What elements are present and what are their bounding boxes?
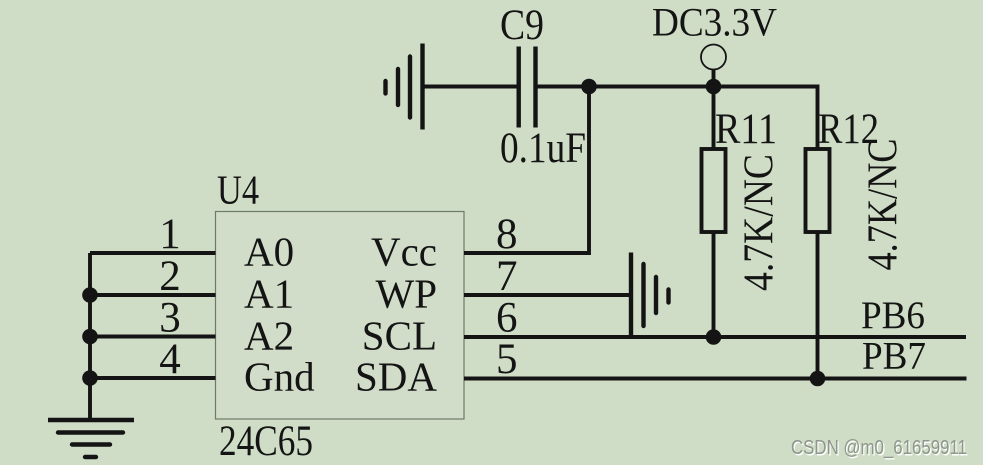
svg-text:4.7K/NC: 4.7K/NC (861, 139, 907, 271)
svg-text:6: 6 (496, 295, 518, 342)
svg-text:SCL: SCL (362, 313, 437, 359)
svg-text:1: 1 (159, 211, 181, 258)
svg-text:24C65: 24C65 (219, 418, 313, 465)
svg-text:4: 4 (159, 336, 181, 383)
svg-text:PB6: PB6 (861, 294, 925, 337)
svg-text:CSDN @m0_61659911: CSDN @m0_61659911 (791, 437, 967, 459)
svg-text:A0: A0 (244, 229, 294, 275)
svg-text:2: 2 (159, 253, 181, 300)
svg-text:4.7K/NC: 4.7K/NC (737, 154, 783, 291)
svg-text:A1: A1 (244, 271, 294, 317)
svg-text:A2: A2 (244, 313, 294, 359)
svg-text:0.1uF: 0.1uF (500, 125, 586, 172)
svg-text:Vcc: Vcc (371, 229, 437, 275)
svg-text:Gnd: Gnd (244, 354, 315, 400)
svg-text:WP: WP (376, 271, 438, 317)
svg-text:3: 3 (159, 295, 181, 342)
svg-text:PB7: PB7 (862, 335, 926, 378)
svg-text:SDA: SDA (355, 354, 437, 400)
svg-text:8: 8 (496, 211, 518, 258)
svg-text:7: 7 (496, 253, 518, 300)
svg-text:C9: C9 (500, 2, 544, 49)
svg-text:U4: U4 (217, 167, 259, 213)
svg-text:R11: R11 (715, 106, 777, 153)
svg-text:DC3.3V: DC3.3V (652, 0, 777, 45)
svg-text:5: 5 (496, 336, 518, 383)
